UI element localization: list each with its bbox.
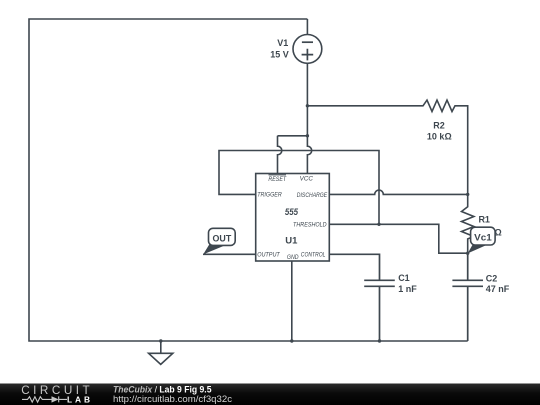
svg-text:555: 555: [285, 207, 299, 218]
svg-text:DISCHARGE: DISCHARGE: [297, 192, 328, 199]
svg-text:OUT: OUT: [213, 233, 232, 243]
svg-text:15 V: 15 V: [270, 49, 289, 59]
svg-text:VCC: VCC: [300, 176, 314, 183]
svg-text:Vc1: Vc1: [474, 233, 492, 243]
svg-text:http://circuitlab.com/cf3q32c: http://circuitlab.com/cf3q32c: [113, 394, 232, 404]
svg-text:RESET: RESET: [268, 176, 287, 183]
svg-text:R2: R2: [433, 120, 445, 130]
svg-text:10 kΩ: 10 kΩ: [427, 132, 452, 142]
svg-text:OUTPUT: OUTPUT: [257, 251, 281, 258]
svg-text:C1: C1: [398, 273, 410, 283]
svg-text:47 nF: 47 nF: [486, 284, 510, 294]
svg-text:1 nF: 1 nF: [398, 284, 417, 294]
svg-text:R1: R1: [478, 214, 490, 224]
svg-text:LAB: LAB: [67, 394, 93, 404]
svg-text:U1: U1: [285, 236, 298, 247]
svg-text:TRIGGER: TRIGGER: [257, 192, 282, 199]
svg-text:CONTROL: CONTROL: [301, 251, 326, 258]
svg-text:V1: V1: [277, 38, 288, 48]
svg-text:C2: C2: [486, 273, 498, 283]
svg-text:THRESHOLD: THRESHOLD: [293, 222, 327, 229]
svg-text:GND: GND: [287, 254, 299, 261]
